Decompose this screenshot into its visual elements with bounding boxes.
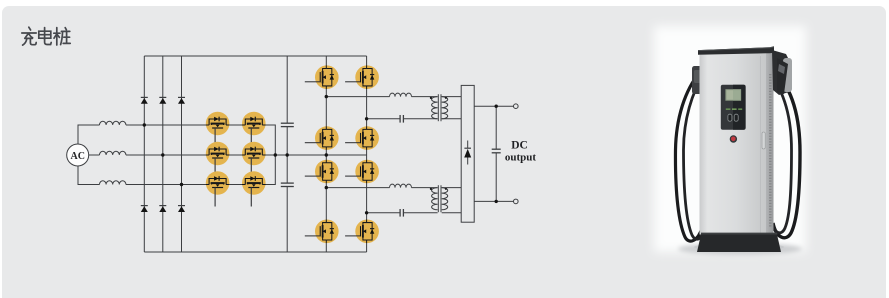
svg-text:DC: DC (511, 139, 528, 151)
junction node mid / DC link (286, 153, 289, 156)
diode D7 (464, 141, 471, 165)
wire phase C (126, 184, 206, 186)
svg-text:AC: AC (70, 151, 84, 162)
inductor L2 (100, 151, 126, 155)
base plinth (697, 235, 781, 253)
MOSFET Q5 (206, 171, 230, 206)
indicator leds (726, 109, 731, 110)
output rectifier block U1 (461, 85, 474, 222)
diode D5 (159, 206, 166, 212)
wire top DC bus (144, 55, 366, 57)
terminal + (514, 104, 519, 109)
MOSFET Q3 (206, 142, 230, 177)
screen bezel (721, 85, 746, 130)
wire bridge leg 1 (143, 56, 145, 252)
inductor L5 (390, 184, 412, 188)
wire phase B (89, 154, 100, 156)
MOSFET Q9 (305, 126, 339, 150)
MOSFET Q14 (345, 220, 379, 244)
MOSFET Q13 (305, 220, 339, 244)
door seam (760, 56, 762, 233)
junction node phase C / leg3 (180, 183, 183, 186)
right cable outer (773, 86, 800, 238)
capacitor C5 (492, 106, 501, 201)
wire (412, 187, 438, 189)
cabinet right side face (766, 52, 774, 235)
wire phase A (126, 124, 206, 126)
AC source (67, 144, 89, 166)
ground shadow (678, 243, 802, 255)
transformer T2 (430, 185, 448, 212)
left holster (692, 66, 703, 94)
MOSFET Q2 (242, 112, 266, 147)
MOSFET Q10 (345, 126, 379, 150)
wire HB leg B (366, 56, 368, 252)
junction node T1 bottom / leg B (365, 117, 368, 120)
junction node output cap bottom (495, 200, 498, 203)
MOSFET Q7 (305, 65, 339, 89)
wire bridge leg 2 (162, 56, 164, 252)
vent strip (769, 74, 771, 228)
wire phase B (126, 154, 367, 156)
wire bottom DC bus (144, 251, 366, 253)
diode D6 (178, 206, 185, 212)
cabinet body front (700, 53, 767, 234)
right gun assembly (772, 50, 790, 95)
inductor L1 (100, 121, 126, 125)
capacitor C3 (400, 115, 403, 123)
svg-text:output: output (505, 152, 537, 164)
wire HB leg A (325, 56, 327, 252)
junction node phase B / leg2 (161, 153, 164, 156)
inductor L4 (390, 93, 412, 97)
MOSFET Q8 (345, 65, 379, 89)
left cable outer (675, 72, 702, 241)
charging station photo (654, 26, 806, 255)
MOSFET Q12 (345, 160, 379, 184)
terminal - (514, 199, 519, 204)
MOSFET Q1 (206, 112, 230, 147)
junction node mid / leg A (325, 153, 328, 156)
junction node T2 bottom / leg B (365, 211, 368, 214)
LCD (725, 89, 741, 101)
diode D1 (141, 97, 148, 103)
wire T2 primary top (326, 187, 389, 189)
MOSFET Q11 (305, 160, 339, 184)
wire (412, 96, 438, 98)
MOSFET Q6 (242, 171, 266, 206)
inductor L3 (100, 181, 126, 185)
capacitor C2 (281, 183, 294, 186)
wire DC link (286, 56, 288, 252)
wire bridge leg 3 (181, 56, 183, 252)
reader sockets (728, 114, 732, 121)
label DC output (505, 139, 537, 163)
junction node phase A / leg1 (143, 123, 146, 126)
wire T1 primary top (326, 96, 389, 98)
door handle (762, 132, 765, 149)
left cable inner (684, 74, 706, 239)
wire DC output + (474, 105, 513, 107)
top cap (698, 46, 774, 55)
wire phase A riser (78, 125, 100, 144)
junction node T2 top / leg A (325, 186, 328, 189)
MOSFET Q4 (242, 142, 266, 177)
junction node output cap top (495, 105, 498, 108)
transformer T1 (430, 94, 448, 121)
title 充电桩 (hand-drawn strokes) (22, 27, 70, 45)
junction node mid / bracket (274, 153, 277, 156)
capacitor C1 (281, 123, 294, 126)
junction node T1 top / leg A (325, 95, 328, 98)
diode D2 (159, 97, 166, 103)
photo white backdrop (654, 26, 806, 252)
red button (730, 135, 737, 142)
wire phase C riser (78, 166, 100, 185)
right cable inner (771, 88, 792, 233)
diode D4 (141, 206, 148, 212)
diode D3 (178, 97, 185, 103)
wire T2 secondary (442, 188, 462, 213)
wire T1 secondary (442, 97, 462, 119)
wire T2 primary bottom (367, 212, 438, 214)
capacitor C4 (400, 209, 403, 217)
wire DC output - (474, 200, 513, 202)
wire T1 primary bottom (367, 118, 438, 120)
wire left group right bracket (229, 125, 275, 185)
